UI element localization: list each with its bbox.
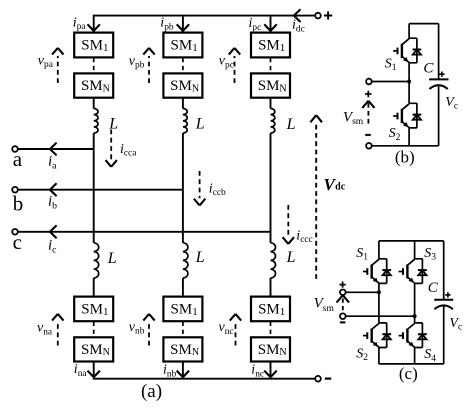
svg-text:SM1: SM1	[81, 301, 108, 318]
svg-text:SMN: SMN	[81, 342, 110, 358]
svg-text:Vsm: Vsm	[314, 296, 335, 314]
svg-text:L: L	[108, 116, 118, 133]
svg-text:ia: ia	[48, 154, 57, 172]
svg-text:(c): (c)	[399, 364, 418, 383]
svg-text:L: L	[195, 116, 205, 133]
svg-text:ina: ina	[74, 362, 88, 379]
svg-text:vpc: vpc	[219, 54, 234, 71]
svg-text:S4: S4	[424, 347, 436, 364]
svg-text:S3: S3	[424, 246, 436, 263]
svg-text:SM1: SM1	[258, 301, 285, 318]
svg-text:S1: S1	[385, 57, 397, 74]
svg-text:S2: S2	[356, 347, 368, 364]
svg-text:c: c	[13, 230, 22, 254]
svg-text:L: L	[286, 249, 296, 266]
svg-text:S1: S1	[356, 246, 368, 263]
svg-text:SMN: SMN	[170, 78, 199, 94]
svg-text:ic: ic	[48, 238, 57, 256]
svg-text:SMN: SMN	[258, 342, 287, 358]
svg-text:S2: S2	[389, 126, 401, 143]
svg-text:vpb: vpb	[129, 54, 145, 71]
svg-text:ipc: ipc	[249, 16, 262, 33]
svg-text:vnc: vnc	[219, 320, 234, 337]
svg-text:vna: vna	[37, 321, 53, 338]
svg-text:iccc: iccc	[296, 228, 312, 245]
svg-text:(a): (a)	[141, 381, 162, 402]
svg-text:Vdc: Vdc	[324, 175, 346, 194]
svg-text:Vsm: Vsm	[343, 109, 364, 127]
svg-text:a: a	[13, 147, 23, 171]
svg-text:vnb: vnb	[129, 320, 145, 337]
svg-text:C: C	[423, 61, 434, 77]
svg-text:inc: inc	[251, 363, 264, 380]
svg-text:SMN: SMN	[81, 78, 110, 94]
svg-text:SM1: SM1	[171, 301, 198, 318]
svg-text:icca: icca	[120, 142, 137, 159]
svg-text:SM1: SM1	[258, 37, 285, 54]
svg-text:ipb: ipb	[160, 16, 174, 33]
svg-text:iccb: iccb	[209, 181, 226, 198]
svg-text:Vc: Vc	[449, 316, 462, 333]
svg-text:L: L	[107, 250, 117, 267]
svg-text:SM1: SM1	[171, 37, 198, 54]
svg-text:(b): (b)	[395, 148, 415, 167]
svg-text:L: L	[195, 249, 205, 266]
svg-text:vpa: vpa	[38, 54, 54, 71]
svg-text:C: C	[428, 280, 439, 296]
svg-text:SMN: SMN	[170, 342, 199, 358]
svg-text:SMN: SMN	[258, 78, 287, 94]
svg-text:Vc: Vc	[445, 95, 458, 112]
svg-text:b: b	[13, 192, 23, 216]
svg-text:inb: inb	[163, 363, 177, 380]
svg-text:SM1: SM1	[81, 37, 108, 54]
svg-text:L: L	[286, 116, 296, 133]
svg-text:ipa: ipa	[73, 15, 87, 32]
